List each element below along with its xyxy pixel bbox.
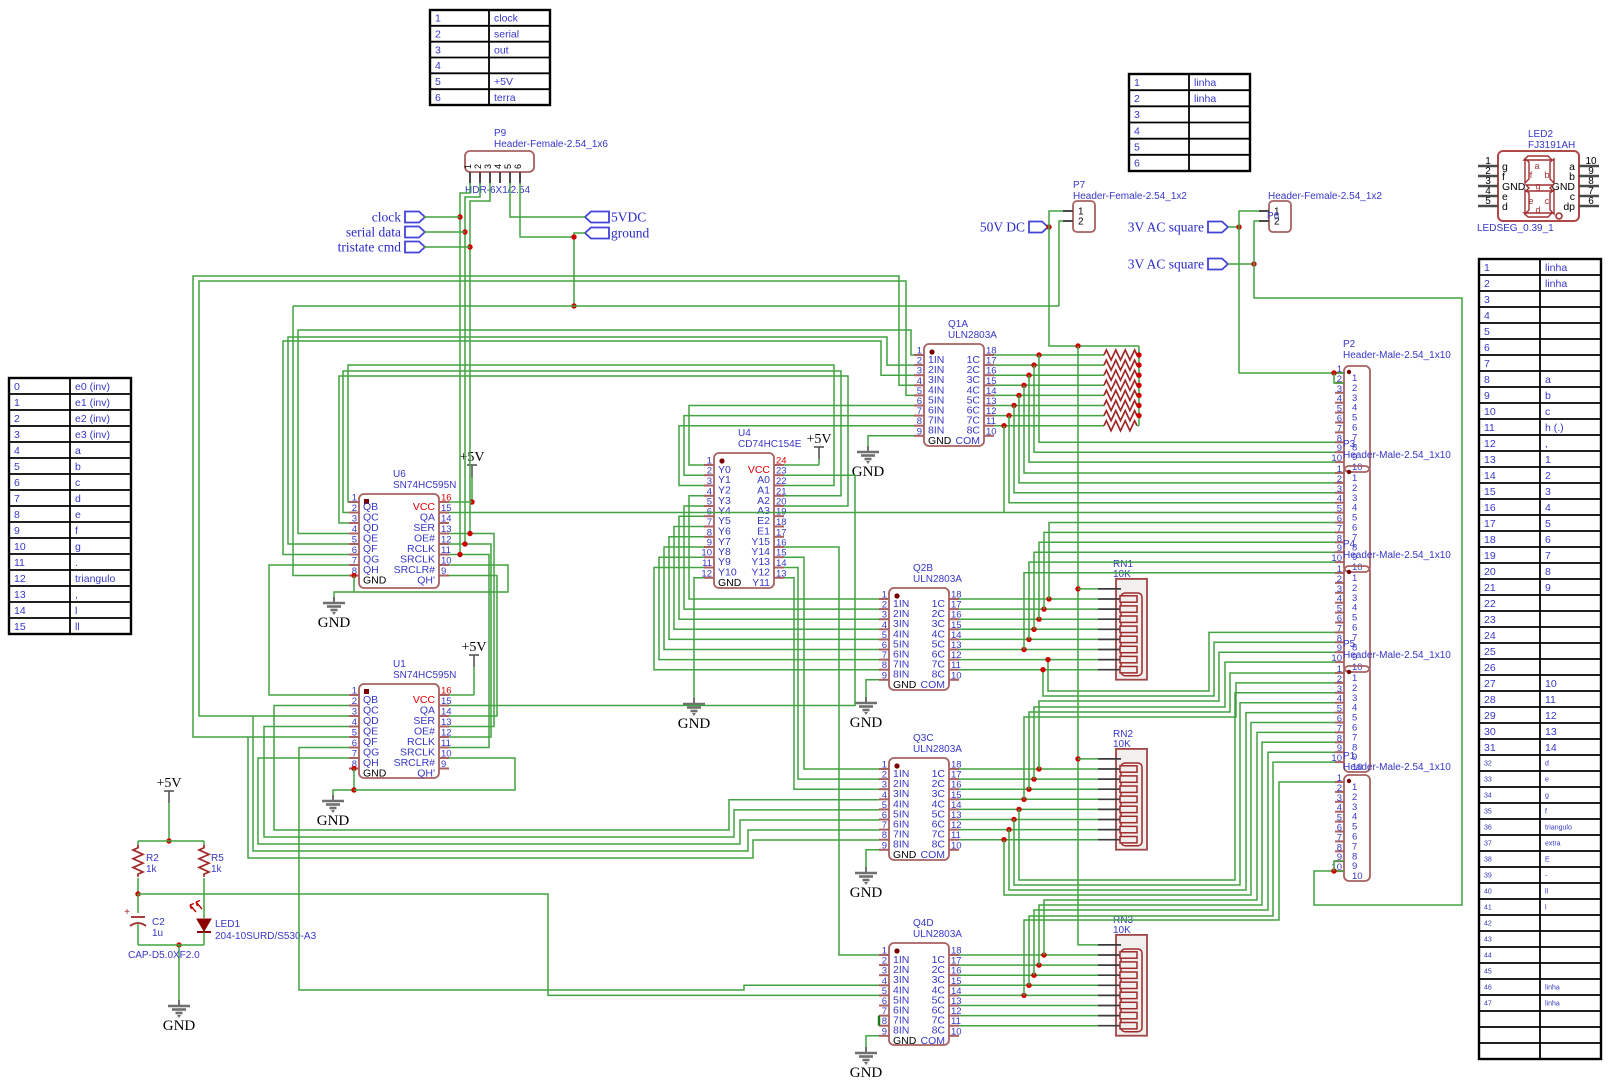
svg-text:COM: COM [956,435,981,447]
svg-text:e1 (inv): e1 (inv) [75,397,110,409]
svg-text:5: 5 [352,728,357,739]
svg-text:GND: GND [893,679,917,691]
svg-text:clock: clock [372,210,401,225]
svg-text:15: 15 [14,621,26,633]
svg-text:,: , [1545,438,1548,450]
svg-text:Header-Male-2.54_1x10: Header-Male-2.54_1x10 [1343,650,1451,661]
svg-text:6: 6 [513,164,523,169]
svg-text:U1: U1 [393,659,406,670]
svg-text:c: c [1545,196,1550,206]
svg-text:QH': QH' [417,575,435,587]
svg-text:3: 3 [352,514,357,525]
svg-text:1: 1 [1545,454,1551,466]
svg-text:13: 13 [1545,726,1557,738]
svg-text:d: d [1535,205,1540,215]
svg-text:10: 10 [951,1026,962,1037]
svg-text:1: 1 [14,397,20,409]
svg-text:204-10SURD/S530-A3: 204-10SURD/S530-A3 [215,931,317,942]
svg-text:27: 27 [1484,678,1496,690]
svg-text:linha: linha [1194,93,1216,105]
svg-text:Q2B: Q2B [913,563,933,574]
svg-text:b: b [1544,170,1549,180]
svg-text:C2: C2 [152,917,165,928]
svg-text:1: 1 [435,13,441,25]
svg-text:35: 35 [1484,809,1492,816]
svg-text:QH': QH' [417,768,435,780]
svg-text:5: 5 [435,76,441,88]
svg-text:4: 4 [352,717,357,728]
svg-text:31: 31 [1484,742,1496,754]
svg-text:3: 3 [435,44,441,56]
svg-text:linha: linha [1545,262,1567,274]
svg-text:4: 4 [1484,310,1490,322]
svg-text:10: 10 [1352,662,1363,673]
svg-text:linha: linha [1545,278,1567,290]
svg-text:GND: GND [363,575,387,587]
svg-text:43: 43 [1484,937,1492,944]
svg-text:11: 11 [1545,694,1556,706]
svg-text:P9: P9 [494,128,507,139]
svg-text:P2: P2 [1343,339,1356,350]
svg-text:10: 10 [951,840,962,851]
svg-text:46: 46 [1484,985,1492,992]
svg-text:3: 3 [1484,294,1490,306]
svg-text:CAP-D5.0XF2.0: CAP-D5.0XF2.0 [128,950,200,961]
svg-text:out: out [494,44,509,56]
svg-text:42: 42 [1484,921,1492,928]
svg-text:9: 9 [14,525,20,537]
svg-text:ULN2803A: ULN2803A [913,574,962,585]
svg-text:triangulo: triangulo [1545,825,1572,832]
svg-text:,: , [75,589,78,601]
svg-text:24: 24 [1484,630,1496,642]
svg-text:2: 2 [473,164,483,169]
svg-text:47: 47 [1484,1001,1492,1008]
svg-text:c: c [75,477,80,489]
svg-text:CD74HC154E: CD74HC154E [738,439,802,450]
svg-text:17: 17 [1484,518,1496,530]
svg-text:ULN2803A: ULN2803A [913,744,962,755]
svg-text:GND: GND [850,715,883,731]
svg-text:30: 30 [1484,726,1496,738]
svg-text:LED1: LED1 [215,919,240,930]
svg-text:1: 1 [352,493,357,504]
svg-text:d: d [1545,761,1549,768]
svg-text:3V AC square: 3V AC square [1128,257,1204,272]
svg-text:ll: ll [75,621,80,633]
svg-text:e2 (inv): e2 (inv) [75,413,110,425]
svg-text:f: f [1545,809,1547,816]
svg-text:9: 9 [1545,582,1551,594]
svg-text:9: 9 [882,1026,887,1037]
svg-text:FJ3191AH: FJ3191AH [1528,140,1575,151]
svg-text:Y11: Y11 [752,577,770,589]
svg-text:+: + [124,907,130,918]
svg-text:LEDSEG_0.39_1: LEDSEG_0.39_1 [1477,223,1554,234]
svg-text:34: 34 [1484,793,1492,800]
svg-text:44: 44 [1484,953,1492,960]
svg-text:14: 14 [1545,742,1557,754]
svg-text:2: 2 [1484,278,1490,290]
svg-text:22: 22 [1484,598,1496,610]
svg-text:COM: COM [921,679,946,691]
svg-text:COM: COM [921,1035,946,1047]
svg-text:serial data: serial data [346,225,401,240]
svg-text:10: 10 [1484,406,1496,418]
svg-text:GND: GND [317,813,350,829]
svg-text:COM: COM [921,849,946,861]
svg-text:5: 5 [1545,518,1551,530]
svg-text:+5V: +5V [494,76,513,88]
svg-text:5: 5 [352,535,357,546]
svg-text:GND: GND [850,1065,883,1080]
svg-text:R5: R5 [211,853,224,864]
svg-text:SN74HC595N: SN74HC595N [393,480,456,491]
svg-text:h (.): h (.) [1545,422,1564,434]
svg-text:ground: ground [611,226,649,241]
svg-text:LED2: LED2 [1528,129,1553,140]
svg-text:16: 16 [1484,502,1496,514]
svg-text:8: 8 [14,509,20,521]
svg-text:GND: GND [893,849,917,861]
svg-text:3V AC square: 3V AC square [1128,220,1204,235]
svg-text:19: 19 [1484,550,1496,562]
svg-text:11: 11 [1484,422,1495,434]
svg-text:7: 7 [352,556,357,567]
svg-text:GND: GND [850,885,883,901]
svg-text:28: 28 [1484,694,1496,706]
svg-text:d: d [75,493,81,505]
svg-text:10: 10 [1545,678,1557,690]
svg-text:e3 (inv): e3 (inv) [75,429,110,441]
svg-text:41: 41 [1484,905,1492,912]
svg-text:terra: terra [494,92,516,104]
svg-text:SN74HC595N: SN74HC595N [393,670,456,681]
svg-text:1: 1 [463,164,473,169]
svg-text:GND: GND [852,464,885,480]
svg-text:linha: linha [1545,1001,1560,1008]
svg-text:ULN2803A: ULN2803A [913,929,962,940]
svg-text:1: 1 [1484,262,1490,274]
svg-text:8: 8 [1484,374,1490,386]
svg-text:6: 6 [1484,342,1490,354]
svg-text:8: 8 [1545,566,1551,578]
svg-text:38: 38 [1484,857,1492,864]
svg-text:clock: clock [494,13,519,25]
svg-text:U6: U6 [393,469,406,480]
svg-text:linha: linha [1194,77,1216,89]
svg-text:ULN2803A: ULN2803A [948,330,997,341]
svg-text:g: g [75,541,81,553]
svg-text:10: 10 [1352,562,1363,573]
svg-text:3: 3 [483,164,493,169]
svg-text:7: 7 [14,493,20,505]
svg-text:1k: 1k [146,864,158,875]
svg-text:.: . [75,557,78,569]
svg-text:6: 6 [435,92,441,104]
svg-text:2: 2 [14,413,20,425]
svg-text:a: a [75,445,81,457]
svg-text:6: 6 [1134,158,1140,170]
svg-text:GND: GND [163,1018,196,1034]
svg-text:50V DC: 50V DC [980,220,1025,235]
svg-text:tristate cmd: tristate cmd [338,240,402,255]
svg-text:c: c [1545,406,1550,418]
svg-text:Q1A: Q1A [948,319,968,330]
svg-text:13: 13 [14,589,26,601]
svg-text:10: 10 [986,426,997,437]
svg-text:P4: P4 [1343,539,1356,550]
svg-text:+5V: +5V [459,450,484,465]
svg-text:3: 3 [352,707,357,718]
svg-text:10: 10 [1352,871,1363,882]
svg-text:33: 33 [1484,777,1492,784]
svg-text:g: g [1545,793,1549,800]
svg-text:3: 3 [1545,486,1551,498]
svg-text:GND: GND [363,768,387,780]
svg-text:4: 4 [435,60,441,72]
svg-text:2: 2 [435,29,441,41]
svg-text:e: e [1528,196,1533,206]
svg-text:20: 20 [1484,566,1496,578]
svg-text:Header-Female-2.54_1x6: Header-Female-2.54_1x6 [494,139,608,150]
svg-text:b: b [1545,390,1551,402]
svg-text:f: f [75,525,78,537]
svg-text:P1: P1 [1343,751,1356,762]
svg-text:Header-Male-2.54_1x10: Header-Male-2.54_1x10 [1343,350,1451,361]
svg-text:GND: GND [718,577,742,589]
svg-text:+5V: +5V [156,776,181,791]
svg-text:Header-Male-2.54_1x10: Header-Male-2.54_1x10 [1343,550,1451,561]
svg-text:9: 9 [882,670,887,681]
svg-text:7: 7 [1484,358,1490,370]
svg-text:GND: GND [928,435,952,447]
svg-text:5: 5 [14,461,20,473]
svg-text:5VDC: 5VDC [611,210,646,225]
svg-text:6: 6 [1588,196,1594,207]
svg-text:2: 2 [352,696,357,707]
svg-text:13: 13 [1484,454,1496,466]
svg-text:1: 1 [1134,77,1140,89]
svg-text:4: 4 [1134,125,1140,137]
svg-text:10: 10 [14,541,26,553]
svg-text:45: 45 [1484,969,1492,976]
svg-text:6: 6 [352,738,357,749]
svg-text:12: 12 [14,573,26,585]
svg-text:11: 11 [14,557,25,569]
svg-text:U4: U4 [738,428,751,439]
svg-text:+5V: +5V [806,432,831,447]
svg-text:triangulo: triangulo [75,573,115,585]
svg-text:serial: serial [494,29,519,41]
svg-text:3: 3 [14,429,20,441]
svg-text:4: 4 [493,164,503,169]
svg-text:9: 9 [441,566,446,577]
svg-text:e: e [1545,777,1549,784]
svg-text:P6: P6 [1267,211,1280,222]
svg-text:9: 9 [882,840,887,851]
svg-text:14: 14 [1484,470,1496,482]
svg-text:2: 2 [352,503,357,514]
svg-text:1k: 1k [211,864,223,875]
svg-text:5: 5 [1485,196,1491,207]
svg-text:linha: linha [1545,985,1560,992]
svg-text:14: 14 [14,605,26,617]
svg-text:P7: P7 [1073,180,1086,191]
svg-text:2: 2 [1078,217,1084,228]
svg-text:14: 14 [441,514,452,525]
svg-text:3: 3 [1134,109,1140,121]
svg-text:15: 15 [1484,486,1496,498]
svg-text:l: l [75,605,77,617]
svg-text:Q3C: Q3C [913,733,934,744]
svg-text:dp: dp [1563,201,1575,213]
svg-text:7: 7 [352,749,357,760]
svg-text:9: 9 [1484,390,1490,402]
svg-text:a: a [1545,374,1551,386]
svg-text:2: 2 [1134,93,1140,105]
svg-text:g: g [1535,181,1540,191]
svg-text:2: 2 [1545,470,1551,482]
svg-text:Header-Male-2.54_1x10: Header-Male-2.54_1x10 [1343,762,1451,773]
svg-text:21: 21 [1484,582,1496,594]
svg-text:GND: GND [893,1035,917,1047]
svg-text:9: 9 [917,426,922,437]
svg-text:GND: GND [318,615,351,631]
svg-text:e: e [75,509,81,521]
svg-text:4: 4 [1545,502,1551,514]
svg-text:P3: P3 [1343,439,1356,450]
svg-text:P5: P5 [1343,639,1356,650]
svg-text:4: 4 [14,445,20,457]
svg-text:6: 6 [1545,534,1551,546]
svg-text:29: 29 [1484,710,1496,722]
svg-text:36: 36 [1484,825,1492,832]
svg-text:39: 39 [1484,873,1492,880]
svg-text:25: 25 [1484,646,1496,658]
svg-text:23: 23 [1484,614,1496,626]
svg-text:26: 26 [1484,662,1496,674]
svg-text:10: 10 [951,670,962,681]
svg-text:E: E [1545,857,1550,864]
svg-text:6: 6 [352,545,357,556]
svg-text:ll: ll [1545,889,1549,896]
svg-text:0: 0 [14,381,20,393]
svg-text:d: d [1502,201,1508,213]
svg-text:4: 4 [352,524,357,535]
svg-text:5: 5 [1484,326,1490,338]
svg-text:10: 10 [1352,462,1363,473]
svg-text:e0 (inv): e0 (inv) [75,381,110,393]
svg-text:1: 1 [352,686,357,697]
svg-text:37: 37 [1484,841,1492,848]
svg-text:40: 40 [1484,889,1492,896]
svg-text:Q4D: Q4D [913,918,934,929]
svg-text:+5V: +5V [461,640,486,655]
svg-text:extra: extra [1545,841,1561,848]
svg-text:GND: GND [678,716,711,732]
svg-text:Header-Male-2.54_1x10: Header-Male-2.54_1x10 [1343,450,1451,461]
svg-text:5: 5 [1134,142,1140,154]
svg-text:18: 18 [1484,534,1496,546]
svg-text:5: 5 [503,164,513,169]
svg-text:9: 9 [441,759,446,770]
svg-text:7: 7 [1545,550,1551,562]
svg-text:R2: R2 [146,853,159,864]
svg-text:12: 12 [1484,438,1496,450]
svg-text:b: b [75,461,81,473]
svg-text:1u: 1u [152,928,163,939]
svg-text:a: a [1534,161,1539,171]
svg-text:32: 32 [1484,761,1492,768]
svg-text:12: 12 [1545,710,1557,722]
svg-text:6: 6 [14,477,20,489]
